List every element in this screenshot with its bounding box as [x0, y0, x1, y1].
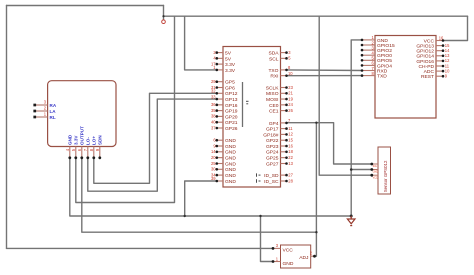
IC U4 ESP8266 module [375, 36, 436, 119]
svg-text:LO+: LO+ [92, 136, 97, 145]
svg-text:32: 32 [211, 89, 216, 94]
svg-text:GP12: GP12 [225, 91, 238, 97]
svg-text:19: 19 [288, 96, 293, 101]
pin GPIO2 3 (ESP left) [361, 45, 393, 54]
svg-text:GP23: GP23 [266, 144, 279, 150]
wire net 3.3V rail [164, 15, 468, 17]
pin GP18# 12 (RPi right) [263, 132, 293, 139]
wire RPi RXI to ESP TXD [287, 75, 363, 77]
pin GP25 22 (RPi right) [266, 155, 294, 162]
svg-text:GP19: GP19 [225, 109, 238, 115]
pin VCC 16 (ESP right) [424, 36, 445, 45]
svg-text:SCLK: SCLK [266, 85, 280, 91]
svg-text:2: 2 [310, 251, 313, 256]
wire RPi TXO to ESP RXD [287, 69, 363, 72]
svg-text:GPIO2: GPIO2 [377, 48, 392, 54]
pin LO- 7 [83, 137, 91, 160]
pin RXD 7 (ESP left) [361, 66, 388, 75]
svg-text:GND: GND [225, 167, 236, 173]
wire rail to AD8232 3.3V [76, 16, 175, 202]
svg-text:GND: GND [283, 261, 294, 267]
pin GND 14 (RPi left) [211, 149, 236, 156]
pin GND 6 (RPi left) [213, 138, 236, 145]
svg-text:REST: REST [421, 74, 434, 80]
wire U3 GND to rail [261, 216, 274, 262]
svg-text:3.3V: 3.3V [225, 62, 236, 68]
pin GPIO0 4 (ESP left) [361, 51, 393, 60]
svg-text:21: 21 [288, 91, 293, 96]
pin LA 2 [33, 106, 56, 114]
pin GP24 18 (RPi right) [266, 149, 294, 156]
pin GPIO12 14 (ESP right) [416, 48, 450, 55]
svg-text:GPIO5: GPIO5 [377, 58, 392, 64]
pin SCLK 23 (RPi right) [266, 85, 294, 92]
svg-text:VCC: VCC [424, 38, 435, 44]
svg-text:GP22: GP22 [266, 138, 279, 144]
junction output run joins vertical [315, 231, 317, 233]
svg-text:22: 22 [288, 155, 293, 160]
svg-text:TXD: TXD [377, 74, 387, 80]
wire net 3.3V left side [6, 6, 8, 249]
svg-text:GPIO14: GPIO14 [416, 54, 434, 60]
pin ADJ 2 [299, 251, 316, 261]
svg-text:25: 25 [211, 161, 216, 166]
pin GP16 36 (RPi left) [211, 102, 238, 109]
pin GND 25 (RPi left) [211, 161, 236, 168]
svg-text:SCL: SCL [269, 56, 279, 62]
svg-text:GPIO12: GPIO12 [416, 49, 434, 55]
svg-text:GP13: GP13 [225, 97, 238, 103]
svg-text:GP24: GP24 [266, 150, 279, 156]
svg-text:SDN: SDN [98, 135, 103, 145]
svg-text:GP18#: GP18# [263, 132, 279, 138]
svg-text:GPIO13: GPIO13 [416, 44, 434, 50]
svg-text:GND: GND [225, 156, 236, 162]
pin GND 34 (RPi left) [211, 172, 236, 179]
svg-text:VCC: VCC [373, 176, 378, 179]
svg-text:3: 3 [288, 50, 291, 55]
pin 3.3V 1 (RPi left) [213, 65, 236, 74]
module U3 VCC/GND/ADJ device [281, 245, 311, 268]
junction rail corner at ground symbol [350, 215, 353, 218]
pin GPIO14 13 (ESP right) [416, 53, 450, 60]
svg-text:GPIO15: GPIO15 [377, 43, 395, 49]
pin 3.3V 17 (RPi left) [211, 61, 236, 68]
svg-text:MOSI: MOSI [266, 97, 279, 103]
svg-text:33: 33 [211, 94, 216, 99]
svg-text:40: 40 [211, 120, 216, 125]
svg-text:GP26: GP26 [225, 126, 238, 132]
svg-text:MISO: MISO [266, 91, 279, 97]
svg-text:9: 9 [445, 74, 448, 79]
svg-text:SIG: SIG [373, 165, 377, 168]
wire AD8232 OUTPUT run [82, 158, 317, 232]
svg-text:16: 16 [439, 36, 444, 41]
junction GP4 wire branch [315, 122, 317, 124]
svg-text:10: 10 [288, 71, 293, 76]
svg-text:RXD: RXD [377, 68, 388, 74]
svg-text:5: 5 [71, 148, 76, 151]
pin 5V 2 (RPi left) [213, 50, 231, 57]
svg-text:GP20: GP20 [225, 114, 238, 120]
pin GND 9 (RPi left) [213, 143, 236, 150]
svg-text:35: 35 [211, 108, 216, 113]
pin GND 1 [272, 257, 294, 267]
svg-text:14: 14 [211, 149, 216, 154]
svg-text:GND: GND [225, 138, 236, 144]
pin GP26 37 (RPi left) [211, 125, 238, 132]
pin CE0 24 (RPi right) [269, 102, 294, 109]
pin GND 4 [65, 134, 73, 159]
pin OUTPUT 6 [77, 126, 85, 159]
junction rail drop [162, 15, 164, 17]
pin GP21 40 (RPi left) [211, 120, 238, 127]
svg-text:GND: GND [373, 171, 379, 174]
svg-text:GND: GND [225, 150, 236, 156]
svg-text:16: 16 [288, 143, 293, 148]
svg-text:28: 28 [288, 178, 293, 183]
svg-text:CH-PD: CH-PD [419, 64, 435, 70]
junction U3 GND on rail [259, 215, 261, 217]
pin GPIO5 5 (ESP left) [361, 56, 393, 65]
pin TXO 8 (RPi right) [268, 65, 291, 74]
pin RA 3 [33, 100, 56, 108]
pin GPIO16 12 (ESP right) [416, 58, 450, 65]
svg-text:18: 18 [288, 149, 293, 154]
wire net 3.3V bottom run to U3 VCC [7, 247, 274, 249]
svg-text:SDA: SDA [268, 51, 279, 57]
svg-text:3: 3 [276, 243, 279, 248]
svg-text:OUTPUT: OUTPUT [80, 126, 85, 145]
pin ID_SD 27 (RPi right) [264, 172, 293, 179]
pin GP17 11 (RPi right) [266, 126, 293, 133]
svg-text:ID_SD: ID_SD [264, 173, 279, 179]
svg-text:GPIO0: GPIO0 [377, 53, 392, 59]
svg-text:CE1: CE1 [269, 109, 279, 115]
wire RPi GND pin39 to rail [185, 181, 217, 216]
pin GND 30 (RPi left) [211, 167, 236, 174]
pin SCL 5 (RPi right) [269, 56, 291, 63]
svg-text:GP25: GP25 [266, 156, 279, 162]
pin GP4 7 (RPi right) [269, 118, 291, 127]
svg-text:8: 8 [89, 148, 94, 151]
svg-text:6: 6 [77, 148, 82, 151]
svg-text:GP6: GP6 [225, 85, 235, 91]
node open wire end [162, 20, 166, 24]
svg-text:LA: LA [50, 109, 57, 114]
pin ID_SC 28 (RPi right) [264, 178, 293, 185]
wire GND rail from AD8232 GND [70, 158, 351, 216]
svg-text:VCC: VCC [283, 248, 294, 254]
svg-text:23: 23 [288, 85, 293, 90]
pin GND 1 (ESP left) [361, 35, 389, 44]
wire AD8232 LO- to RPi GP13 [88, 99, 217, 191]
ground [347, 216, 355, 226]
pin VCC (pulse sensor) [370, 174, 378, 180]
svg-text:30: 30 [211, 167, 216, 172]
wire pulse sensor GND to ESP GND vertical [351, 169, 372, 171]
svg-text:39: 39 [211, 176, 216, 181]
svg-text:GND: GND [225, 179, 236, 185]
svg-text:RXI: RXI [270, 74, 278, 80]
svg-text:2: 2 [44, 106, 47, 111]
IC U2 Raspberry Pi GPIO header [223, 47, 281, 188]
pin 3.3V 5 [71, 135, 79, 160]
svg-text:GPIO16: GPIO16 [416, 59, 434, 65]
pin SIG (pulse sensor) [370, 163, 378, 169]
svg-text:9: 9 [95, 148, 100, 151]
part label line [242, 82, 244, 127]
part label marks [246, 101, 249, 104]
pin GP20 38 (RPi left) [211, 114, 238, 121]
ID_SD glyph marks [257, 173, 261, 182]
svg-text:RA: RA [50, 103, 57, 108]
svg-text:13: 13 [288, 161, 293, 166]
wire net 3.3V top loop [7, 5, 164, 7]
wire rail to RPi 3.3V pin1 [185, 16, 217, 70]
svg-text:26: 26 [288, 108, 293, 113]
svg-text:RL: RL [50, 115, 56, 120]
pin VCC 3 [272, 243, 294, 254]
pin GND 20 (RPi left) [211, 155, 236, 162]
svg-text:GP17: GP17 [266, 127, 279, 133]
svg-text:7: 7 [83, 148, 88, 151]
pin GPIO13 15 (ESP right) [416, 43, 450, 50]
svg-text:38: 38 [211, 114, 216, 119]
pin REST 9 (ESP right) [421, 74, 448, 81]
svg-text:20: 20 [211, 155, 216, 160]
svg-text:15: 15 [288, 138, 293, 143]
pin GP12 32 (RPi left) [211, 89, 238, 98]
wire rail to ESP VCC [443, 16, 468, 40]
pin GND 39 (RPi left) [211, 176, 236, 185]
svg-text:36: 36 [211, 102, 216, 107]
pin RXI 10 (RPi right) [270, 71, 293, 80]
pin GP19 35 (RPi left) [211, 108, 238, 115]
pin GP13 33 (RPi left) [211, 94, 238, 103]
svg-text:3.3V: 3.3V [74, 135, 79, 145]
svg-text:5V: 5V [225, 56, 232, 62]
pin MISO 21 (RPi right) [266, 91, 294, 98]
wire signal vertical to U3 ADJ [314, 123, 317, 257]
pin MOSI 19 (RPi right) [266, 96, 294, 103]
junction RPi GND drop on rail [184, 215, 186, 217]
svg-text:GPIO4: GPIO4 [377, 63, 392, 69]
pin 5V 4 (RPi left) [213, 56, 231, 63]
pin SDA 3 (RPi right) [268, 50, 291, 57]
svg-text:11: 11 [288, 126, 293, 131]
svg-text:ADJ: ADJ [299, 255, 309, 261]
svg-text:ADC: ADC [424, 69, 435, 75]
wire RPi GP4 to pulse sensor SIG [287, 123, 372, 164]
svg-text:5V: 5V [225, 51, 232, 57]
sensor U5 pulse sensor GPS012 [378, 147, 391, 194]
pin GPIO15 2 (ESP left) [361, 40, 395, 49]
svg-text:GP5: GP5 [225, 80, 235, 86]
pin TXD 8 (ESP left) [361, 71, 388, 80]
pin CE1 26 (RPi right) [269, 108, 294, 115]
pin GPIO4 6 (ESP left) [361, 61, 393, 70]
pin LO+ 8 [89, 136, 97, 160]
wire net 3.3V loop drop to rail [163, 6, 165, 20]
wire AD8232 LO+ to RPi GP12 [94, 93, 217, 183]
svg-text:3: 3 [44, 100, 47, 105]
svg-text:GND: GND [225, 173, 236, 179]
svg-text:3.3V: 3.3V [225, 68, 236, 74]
svg-text:5: 5 [288, 56, 291, 61]
pin RL 1 [33, 112, 55, 120]
svg-text:GP4: GP4 [269, 121, 279, 127]
pin ADC 10 (ESP right) [424, 68, 450, 75]
svg-text:GP21: GP21 [225, 120, 238, 126]
svg-text:GND: GND [225, 144, 236, 150]
svg-text:Sensor GPS012: Sensor GPS012 [383, 160, 388, 192]
wire rail to pulse sensor VCC [319, 16, 372, 175]
svg-text:GND: GND [68, 134, 73, 145]
svg-text:ID_SC: ID_SC [264, 179, 279, 185]
svg-text:4: 4 [65, 148, 70, 151]
svg-text:27: 27 [288, 172, 293, 177]
svg-text:GP27: GP27 [266, 161, 279, 167]
junction sensor GND tap [350, 168, 353, 171]
svg-text:1: 1 [44, 112, 47, 117]
pin GP27 13 (RPi right) [266, 161, 294, 168]
svg-text:TXO: TXO [268, 68, 278, 74]
sensor U1 AD8232 heart rate monitor [48, 81, 116, 147]
svg-text:CE0: CE0 [269, 103, 279, 109]
svg-text:24: 24 [288, 102, 293, 107]
wire ESP GND vertical [351, 40, 362, 216]
svg-text:37: 37 [211, 125, 216, 130]
svg-text:LO-: LO- [86, 137, 91, 145]
pin GP22 15 (RPi right) [266, 138, 294, 145]
svg-text:GND: GND [377, 38, 388, 44]
svg-text:GP16: GP16 [225, 103, 238, 109]
pin GP23 16 (RPi right) [266, 143, 294, 150]
svg-text:GND: GND [225, 161, 236, 167]
pin GND (pulse sensor) [370, 168, 378, 174]
svg-text:12: 12 [288, 132, 293, 137]
svg-text:29: 29 [211, 79, 216, 84]
pin SDN 9 [95, 135, 103, 160]
pin GP6 31 (RPi left) [211, 85, 235, 92]
pin CH-PD 11 (ESP right) [419, 63, 450, 70]
pin GP5 29 (RPi left) [211, 79, 235, 86]
